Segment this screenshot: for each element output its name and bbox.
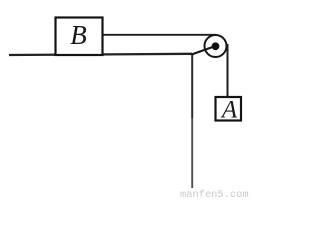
- table surface line: [9, 54, 192, 55]
- block A: [216, 97, 242, 121]
- rope from B to pulley: [102, 34, 216, 36]
- svg-text:A: A: [220, 97, 238, 124]
- rope from pulley down to A: [227, 44, 229, 98]
- table edge vertical line (lower, lighter part): [191, 118, 193, 188]
- block B: [56, 18, 103, 56]
- pulley bracket to table corner: [192, 46, 216, 55]
- svg-text:B: B: [70, 20, 87, 50]
- svg-text:manfen5.com: manfen5.com: [180, 189, 249, 199]
- pulley axle dot: [212, 42, 220, 50]
- pulley wheel: [205, 35, 227, 57]
- table edge vertical line (upper part): [191, 54, 193, 118]
